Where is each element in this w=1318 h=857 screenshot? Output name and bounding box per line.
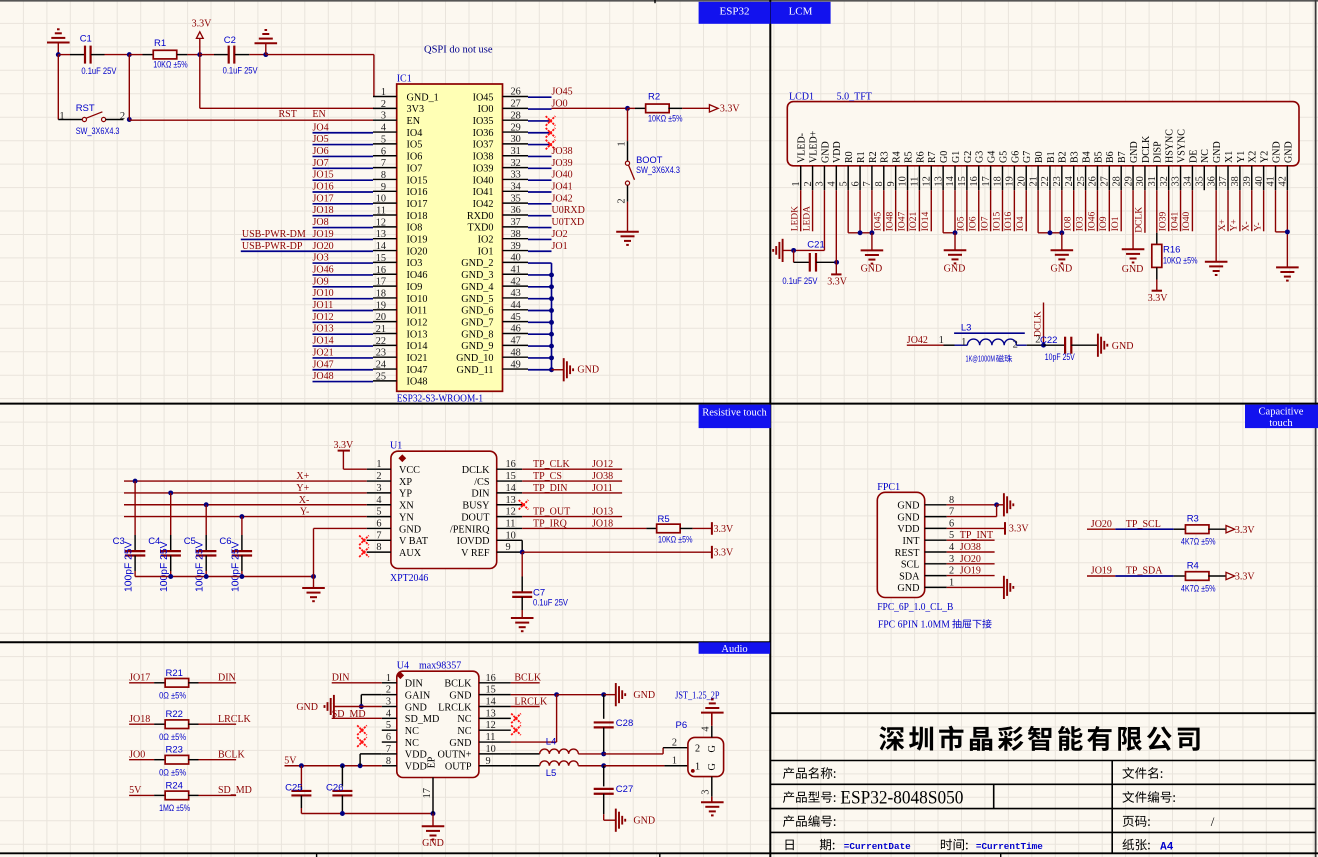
node X+ cap tap xyxy=(133,479,138,484)
wire B0 B1 B2 to ground group3 xyxy=(1037,190,1039,233)
svg-text:IO21: IO21 xyxy=(909,212,919,232)
node GND15 a xyxy=(554,692,559,697)
svg-text:4K7Ω ±5%: 4K7Ω ±5% xyxy=(1181,537,1216,547)
svg-text:IO41: IO41 xyxy=(473,187,494,198)
wire net X+ pin 37 xyxy=(1227,190,1229,231)
svg-text:/PENIRQ: /PENIRQ xyxy=(450,524,490,535)
connector P6 JST_1.25_2P body xyxy=(688,737,724,776)
wire pin 43 stub xyxy=(528,298,552,300)
wire pin 26 stub xyxy=(528,96,552,98)
wire net Y- xyxy=(124,516,367,518)
svg-text:23: 23 xyxy=(1052,176,1063,186)
no-connect pin 8 xyxy=(359,547,369,557)
svg-text:QSPI do not use: QSPI do not use xyxy=(424,45,493,56)
node GND pin 42 xyxy=(549,284,554,289)
svg-text:R1: R1 xyxy=(856,151,867,163)
wire net JO8 xyxy=(313,227,374,229)
svg-text:G6: G6 xyxy=(1010,151,1021,163)
wire net JO46 xyxy=(313,274,374,276)
wire pin 30 stub xyxy=(528,144,552,146)
pin 40 GND_2 xyxy=(503,261,529,263)
svg-text:IO19: IO19 xyxy=(407,235,428,246)
svg-text:GND: GND xyxy=(944,264,966,275)
pin 28 IO35 xyxy=(503,119,529,121)
svg-text:41: 41 xyxy=(1266,176,1277,186)
svg-text:40: 40 xyxy=(1254,176,1265,186)
svg-text:15: 15 xyxy=(486,685,496,696)
inductor L4 xyxy=(511,753,540,755)
svg-text:R4: R4 xyxy=(892,151,903,163)
section label box ESP32 xyxy=(699,2,771,24)
capacitor C22 xyxy=(1044,344,1066,346)
inductor L3 ferrite bead xyxy=(955,344,968,346)
svg-text:11: 11 xyxy=(486,732,496,743)
node GND pin 43 xyxy=(549,296,554,301)
pin 39 IO1 xyxy=(503,250,529,252)
wire net IO46 pin 26 xyxy=(1096,190,1098,231)
power port 3.3V LCD VDD xyxy=(831,273,841,275)
svg-text:DCLK: DCLK xyxy=(1141,135,1152,163)
svg-text:22: 22 xyxy=(1040,176,1051,186)
ground GND U4 EP xyxy=(432,814,434,827)
svg-text:OUTP: OUTP xyxy=(445,762,472,773)
svg-text:DIN: DIN xyxy=(218,673,236,684)
pin 19 IO11 xyxy=(373,309,397,311)
ground GND group1 xyxy=(871,233,873,251)
svg-text:12: 12 xyxy=(486,720,496,731)
capacitor C25 xyxy=(300,766,302,787)
wire DCLK vertical xyxy=(1043,303,1045,346)
svg-text:JO39: JO39 xyxy=(552,158,573,169)
svg-text:100pF 25V: 100pF 25V xyxy=(124,541,135,592)
wire net JO19 xyxy=(1087,575,1115,577)
node group3 B1 xyxy=(1048,230,1053,235)
pin 29 IO36 xyxy=(503,131,529,133)
section divider horizontal audio xyxy=(0,641,770,643)
wire JO0 to R23 xyxy=(129,759,154,761)
wire pin6 VDD xyxy=(947,527,1005,529)
svg-text:24: 24 xyxy=(1064,176,1075,186)
wire GND pin15 xyxy=(511,694,557,696)
pin 4 P6 ground up xyxy=(711,726,713,738)
pin 13 BUSY xyxy=(497,504,523,506)
wire pin 33 stub xyxy=(528,179,552,181)
power port 3.3V BOOT xyxy=(709,105,718,112)
svg-text:9: 9 xyxy=(886,181,897,186)
wire pin4 VDD to 3.3V xyxy=(835,190,837,274)
svg-text:27: 27 xyxy=(511,99,521,110)
svg-text:/CS: /CS xyxy=(474,477,490,488)
svg-text:B0: B0 xyxy=(1034,151,1045,163)
wire GND bus right xyxy=(551,263,553,370)
IC U4 max98357 body xyxy=(397,671,479,777)
svg-text:45: 45 xyxy=(511,312,521,323)
svg-text:GND: GND xyxy=(897,583,919,594)
wire net IO16 pin 19 xyxy=(1013,190,1015,231)
svg-text:5: 5 xyxy=(381,134,386,145)
svg-text:12: 12 xyxy=(921,176,932,186)
node GAIN-GND xyxy=(359,704,364,709)
svg-text:GND: GND xyxy=(296,702,318,713)
wire net X+ xyxy=(124,480,367,482)
wire GND pin6 xyxy=(313,528,315,576)
no-connect pin 5 xyxy=(357,725,367,735)
ground GND BOOT xyxy=(616,231,639,233)
svg-text:IO0: IO0 xyxy=(478,104,494,115)
sheet border top xyxy=(0,0,1318,2)
svg-text:INT: INT xyxy=(903,536,921,547)
svg-text:JO42: JO42 xyxy=(907,335,928,346)
svg-text:JO13: JO13 xyxy=(592,507,613,518)
capacitor C2 xyxy=(228,46,230,64)
ground GND touch caps xyxy=(313,577,315,589)
svg-text:IO9: IO9 xyxy=(407,282,423,293)
pin 4 XN xyxy=(367,504,391,506)
svg-text:GND: GND xyxy=(633,690,655,701)
svg-text:C2: C2 xyxy=(224,35,236,46)
svg-text:0Ω ±5%: 0Ω ±5% xyxy=(159,691,186,701)
svg-text:SCL: SCL xyxy=(901,560,920,571)
ground GND top second xyxy=(265,43,267,54)
svg-text:IO15: IO15 xyxy=(992,212,1002,232)
pin 34 IO41 xyxy=(503,190,529,192)
svg-text:4: 4 xyxy=(376,495,381,506)
svg-text:TP_SCL: TP_SCL xyxy=(1126,519,1161,530)
svg-text:C25: C25 xyxy=(285,782,302,793)
wire BCLK U4 xyxy=(511,682,540,684)
svg-text:6: 6 xyxy=(850,181,861,186)
svg-text:JO21: JO21 xyxy=(313,347,334,358)
node 3.3V rail xyxy=(197,52,202,57)
svg-text:GND: GND xyxy=(1051,264,1073,275)
node A xyxy=(127,52,132,57)
pin 8 AUX xyxy=(367,551,391,553)
node X- cap tap xyxy=(204,502,209,507)
svg-text:JO17: JO17 xyxy=(313,193,334,204)
svg-text:31: 31 xyxy=(511,146,521,157)
svg-text:EN: EN xyxy=(312,109,325,120)
svg-text:FPC_6P_1.0_CL_B: FPC_6P_1.0_CL_B xyxy=(877,602,953,613)
svg-text:VDD: VDD xyxy=(405,762,427,773)
wire pin 40 stub xyxy=(528,262,552,264)
svg-text:1: 1 xyxy=(695,762,700,773)
wire net IO40 pin 34 xyxy=(1191,190,1193,231)
wire node to R1 xyxy=(129,54,142,56)
pin 1 DIN xyxy=(382,682,397,684)
svg-text:DIN: DIN xyxy=(332,673,350,684)
wire net IO7 pin 17 xyxy=(990,190,992,231)
svg-text:VLED+: VLED+ xyxy=(808,130,819,163)
pin 10 OUTN+ xyxy=(479,753,511,755)
svg-text:15: 15 xyxy=(376,253,386,264)
svg-text:Y2: Y2 xyxy=(1260,151,1271,163)
node VDD pins xyxy=(358,763,363,768)
pin 24 IO47 xyxy=(373,368,397,370)
svg-text:GND: GND xyxy=(422,838,444,849)
wire 3.3V to pin2 xyxy=(199,55,201,109)
svg-text:49: 49 xyxy=(511,359,521,370)
svg-text:GND: GND xyxy=(861,264,883,275)
svg-text:0.1uF 25V: 0.1uF 25V xyxy=(782,276,818,286)
svg-text:27: 27 xyxy=(1100,176,1111,186)
svg-text:1: 1 xyxy=(381,87,386,98)
title row product model xyxy=(783,791,836,803)
wire pin 28 stub xyxy=(528,120,552,122)
svg-text:IO45: IO45 xyxy=(874,212,884,232)
pin 2 XP xyxy=(367,480,391,482)
svg-text:XN: XN xyxy=(399,501,414,512)
wire net IO1 pin 28 xyxy=(1120,190,1122,231)
node rail junction left xyxy=(56,52,61,57)
svg-text:31: 31 xyxy=(1147,176,1158,186)
svg-text:FPC1: FPC1 xyxy=(877,482,900,493)
svg-text:2: 2 xyxy=(120,111,125,122)
svg-text:A4: A4 xyxy=(1160,842,1174,854)
wire net JO6 xyxy=(313,155,374,157)
pin 8 IO15 xyxy=(373,178,397,180)
svg-text:3.3V: 3.3V xyxy=(1235,572,1256,583)
resistor R21 xyxy=(165,679,189,688)
svg-text:JO48: JO48 xyxy=(313,371,334,382)
wire pin 29 stub xyxy=(528,132,552,134)
resistor R3 xyxy=(1185,525,1209,534)
svg-text:IO40: IO40 xyxy=(1182,212,1192,232)
svg-text:14: 14 xyxy=(376,241,386,252)
svg-text:GND: GND xyxy=(633,816,655,827)
svg-text:6: 6 xyxy=(386,732,391,743)
svg-text:IC1: IC1 xyxy=(397,74,412,85)
svg-text:1: 1 xyxy=(617,141,628,146)
svg-text:NC: NC xyxy=(1200,149,1211,163)
svg-text:21: 21 xyxy=(376,324,386,335)
svg-text:IO7: IO7 xyxy=(980,216,990,231)
svg-text:16: 16 xyxy=(506,459,516,470)
wire JO17 to R21 xyxy=(129,682,154,684)
svg-text:5: 5 xyxy=(386,720,391,731)
pin 21 IO13 xyxy=(373,333,397,335)
node group3 B2 xyxy=(1059,230,1064,235)
pin 5 IO5 xyxy=(373,143,397,145)
svg-text:C1: C1 xyxy=(80,33,92,44)
pin 3 EN xyxy=(373,119,397,121)
svg-text:NC: NC xyxy=(457,714,471,725)
sheet border right xyxy=(1315,0,1317,857)
svg-text:B4: B4 xyxy=(1081,151,1092,163)
wire rail to pin1 xyxy=(266,54,374,56)
svg-text:G7: G7 xyxy=(1022,151,1033,163)
pin 42 GND_4 xyxy=(503,285,529,287)
node Y+ cap tap xyxy=(168,490,173,495)
wire net JO20 xyxy=(241,250,373,252)
svg-text:JO4: JO4 xyxy=(313,122,329,133)
svg-text:Y1: Y1 xyxy=(1236,151,1247,163)
node BOOT xyxy=(625,106,630,111)
wire net TP_CLK xyxy=(522,468,622,470)
svg-text:X1: X1 xyxy=(1224,151,1235,163)
svg-text:TP_IRQ: TP_IRQ xyxy=(533,518,568,529)
svg-text:12: 12 xyxy=(506,507,516,518)
svg-text:33: 33 xyxy=(1171,176,1182,186)
svg-text:3: 3 xyxy=(376,483,381,494)
svg-text:GND: GND xyxy=(1271,141,1282,163)
svg-text:NC: NC xyxy=(405,726,419,737)
svg-text:GND_3: GND_3 xyxy=(461,270,493,281)
svg-text:X+: X+ xyxy=(1218,219,1228,231)
capacitor C28 xyxy=(603,695,605,719)
svg-text:15: 15 xyxy=(506,471,516,482)
svg-text:SD_MD: SD_MD xyxy=(218,785,252,796)
svg-text:B7: B7 xyxy=(1117,151,1128,163)
node rail xyxy=(168,574,173,579)
svg-text:BOOT: BOOT xyxy=(636,155,663,165)
svg-text:EN: EN xyxy=(407,116,421,127)
svg-text:X2: X2 xyxy=(1248,151,1259,163)
svg-text:ESP32: ESP32 xyxy=(720,6,750,18)
svg-text:GND_6: GND_6 xyxy=(461,306,493,317)
section label box Audio xyxy=(699,642,771,654)
pin 20 IO12 xyxy=(373,321,397,323)
ground GND pin29 xyxy=(1122,248,1145,250)
pin 1 GND xyxy=(925,586,947,588)
wire net IO3 pin 25 xyxy=(1085,190,1087,231)
svg-text:Resistive touch: Resistive touch xyxy=(702,408,767,419)
svg-text:2: 2 xyxy=(672,738,677,749)
wire net IO4 pin 20 xyxy=(1025,190,1027,231)
svg-text:12: 12 xyxy=(376,217,386,228)
svg-text:JO10: JO10 xyxy=(313,288,334,299)
svg-text:R5: R5 xyxy=(903,151,914,163)
svg-text:JO17: JO17 xyxy=(129,673,150,684)
svg-text:IO37: IO37 xyxy=(473,140,494,151)
wire 5V to R24 xyxy=(129,794,154,796)
svg-text:TXD0: TXD0 xyxy=(467,223,493,234)
wire pin 31 stub xyxy=(528,155,552,157)
wire pin 48 stub xyxy=(528,357,552,359)
wire JO0 to BOOT node xyxy=(552,107,628,109)
node rail xyxy=(204,574,209,579)
node OUTN-C28 xyxy=(601,751,606,756)
pin 9 V REF xyxy=(497,551,523,553)
svg-text:0.1uF 25V: 0.1uF 25V xyxy=(223,66,259,76)
svg-text:NC: NC xyxy=(405,738,419,749)
pin 35 IO42 xyxy=(503,202,529,204)
svg-text:USB-PWR-DP: USB-PWR-DP xyxy=(242,241,303,252)
svg-text:JO11: JO11 xyxy=(592,483,613,494)
svg-text:IO48: IO48 xyxy=(885,212,895,232)
wire C2 to GND node xyxy=(235,54,250,56)
svg-text:C28: C28 xyxy=(616,718,633,729)
pin 3 YP xyxy=(367,492,391,494)
svg-text:32: 32 xyxy=(511,158,521,169)
wire pin 42 stub xyxy=(528,286,552,288)
svg-text:JO46: JO46 xyxy=(313,264,334,275)
svg-text:9: 9 xyxy=(506,542,511,553)
svg-text:C21: C21 xyxy=(807,240,824,251)
svg-text:SW_3X6X4.3: SW_3X6X4.3 xyxy=(76,126,120,136)
pin 3 SCL xyxy=(925,563,947,565)
svg-text:R0: R0 xyxy=(844,151,855,163)
wire net X- xyxy=(124,504,367,506)
pin 26 IO45 xyxy=(503,96,529,98)
svg-text:IO15: IO15 xyxy=(407,175,428,186)
svg-text:GND: GND xyxy=(1283,141,1294,163)
svg-text:VDD: VDD xyxy=(897,524,919,535)
power port 3.3V top xyxy=(199,38,201,54)
svg-text:max98357: max98357 xyxy=(419,661,461,672)
svg-text:11: 11 xyxy=(376,206,386,217)
svg-text:IO12: IO12 xyxy=(407,317,428,328)
wire pin 49 stub xyxy=(528,369,552,371)
ground GND group3 xyxy=(1061,233,1063,250)
svg-text:FPC 6PIN 1.0MM: FPC 6PIN 1.0MM xyxy=(878,620,950,631)
svg-text:2: 2 xyxy=(386,685,391,696)
svg-text:VSYNC: VSYNC xyxy=(1176,129,1187,163)
svg-text:SDA: SDA xyxy=(899,571,920,582)
title row file number xyxy=(1122,791,1175,803)
pin 6 NC xyxy=(382,741,397,743)
svg-text:IO9: IO9 xyxy=(1099,216,1109,231)
node GND pin 45 xyxy=(549,320,554,325)
svg-text:GND_9: GND_9 xyxy=(461,341,493,352)
svg-text:18: 18 xyxy=(376,288,386,299)
svg-text:5V: 5V xyxy=(284,756,297,767)
svg-text:Audio: Audio xyxy=(721,644,747,655)
svg-text:11: 11 xyxy=(506,518,516,529)
svg-text:Y+: Y+ xyxy=(296,483,309,494)
pin 25 IO48 xyxy=(373,380,397,382)
node DCLK-C22 xyxy=(1041,343,1046,348)
svg-text:JO38: JO38 xyxy=(592,471,613,482)
svg-text:TP_SDA: TP_SDA xyxy=(1126,566,1163,577)
svg-text:G: G xyxy=(707,745,718,753)
svg-text:IO39: IO39 xyxy=(1158,212,1168,232)
svg-text:V REF: V REF xyxy=(461,548,490,559)
svg-text:B2: B2 xyxy=(1058,151,1069,163)
svg-text:14: 14 xyxy=(486,697,496,708)
wire pin 35 stub xyxy=(528,203,552,205)
node Y- cap tap xyxy=(239,514,244,519)
wire pin 46 stub xyxy=(528,333,552,335)
svg-text:IO10: IO10 xyxy=(407,294,428,305)
svg-text:8: 8 xyxy=(874,181,885,186)
wire net JO13 xyxy=(313,333,374,335)
svg-text:10KΩ ±5%: 10KΩ ±5% xyxy=(648,114,683,124)
svg-text:35: 35 xyxy=(511,193,521,204)
svg-text:G3: G3 xyxy=(975,151,986,163)
svg-text:16: 16 xyxy=(376,265,386,276)
pin 10 IO17 xyxy=(373,202,397,204)
svg-text:RXD0: RXD0 xyxy=(467,211,494,222)
ground GND pin42 xyxy=(1276,266,1299,268)
power port 3.3V VREF xyxy=(711,546,713,559)
svg-text:JO47: JO47 xyxy=(313,359,334,370)
svg-text:DISP: DISP xyxy=(1153,141,1164,163)
svg-text:IO5: IO5 xyxy=(957,216,967,231)
svg-text:GND_10: GND_10 xyxy=(456,353,493,364)
wire net JO7 xyxy=(313,167,374,169)
svg-text:YN: YN xyxy=(399,512,414,523)
svg-text:GND: GND xyxy=(449,690,471,701)
svg-text:36: 36 xyxy=(511,205,521,216)
svg-text:2: 2 xyxy=(381,99,386,110)
no-connect pin 13 xyxy=(511,714,521,724)
svg-text:IO6: IO6 xyxy=(407,152,423,163)
wire G0 G1 to ground group2 xyxy=(942,190,944,233)
svg-text:XP: XP xyxy=(399,477,412,488)
svg-text:6: 6 xyxy=(381,146,386,157)
wire pin1 GND xyxy=(947,586,1004,588)
node VDD-C21 xyxy=(834,260,839,265)
